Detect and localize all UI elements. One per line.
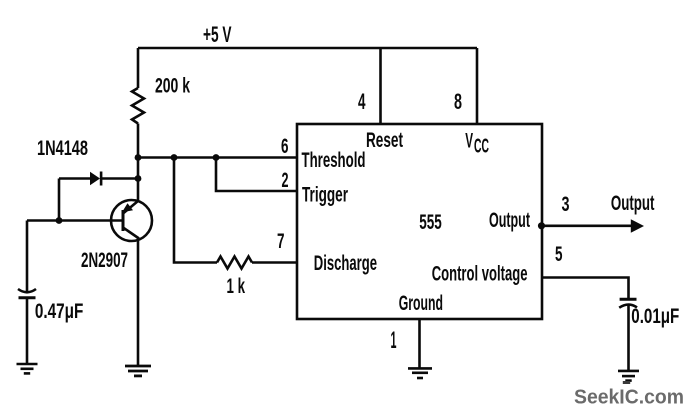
svg-text:1 k: 1 k [227,275,246,298]
svg-text:200 k: 200 k [155,75,190,98]
node dot threshold-resistor junction [135,154,142,161]
wire threshold row node to pin 6 [138,156,297,159]
wire base row to transistor Q1 base [27,219,123,222]
svg-text:0.01μF: 0.01μF [631,305,679,328]
svg-text:2N2907: 2N2907 [81,249,128,272]
resistor R1 200k [132,88,144,124]
output arrowhead [631,219,644,233]
capacitor C1 flat plate [19,296,36,299]
wire diode D1 cathode segment [102,177,138,180]
svg-text:Output: Output [611,192,655,215]
capacitor C2 curved plate [619,305,637,308]
wire cap C1 lead from base row corner [26,221,29,293]
node dot trigger branch junction [213,154,220,161]
wire +5V top rail [138,47,477,50]
transistor Q1 emitter diagonal [123,201,138,214]
ground right (C2) [618,371,639,381]
svg-text:Reset: Reset [366,129,403,152]
svg-text:+5 V: +5 V [203,22,232,47]
ground pin1 (555) [408,368,432,378]
wire trigger branch to pin 2 [216,158,297,192]
wire pin 1 ground lead [418,319,421,368]
svg-text:Threshold: Threshold [302,149,366,172]
wire transistor Q1 emitter to ground [137,239,140,367]
wire rail to resistor R1 top [137,48,140,88]
svg-text:6: 6 [281,135,289,158]
wire resistor R1 bottom to transistor Q1 collector [137,124,140,202]
svg-text:CC: CC [474,136,489,158]
svg-text:1N4148: 1N4148 [37,137,88,160]
node dot base-diode junction [56,217,63,224]
node dot output pin 3 [538,222,545,229]
diode D1 cathode bar [100,172,103,186]
transistor Q1 base bar [122,210,125,231]
svg-text:0.47μF: 0.47μF [35,300,84,323]
svg-text:Trigger: Trigger [302,184,348,207]
wire cap C1 to ground [26,298,29,364]
wire pin 5 control voltage [542,278,629,299]
wire cap C2 to ground [627,306,630,372]
svg-text:555: 555 [419,211,442,234]
svg-text:3: 3 [562,193,570,216]
wire discharge branch down [174,158,217,263]
watermark SeekIC.com [574,381,684,408]
transistor Q1 emitter arrow [122,203,133,212]
svg-text:5: 5 [555,243,563,266]
wire pin8 drop from rail [476,48,479,124]
IC U1 555 box [297,124,542,319]
wire resistor R2 to pin 7 [252,261,297,264]
wire diode D1 anode segment [59,177,90,180]
node dot discharge branch junction [171,154,178,161]
svg-text:8: 8 [454,89,462,114]
svg-text:2: 2 [282,169,289,192]
node dot diode-collector junction [135,175,142,182]
svg-text:Control voltage: Control voltage [432,263,528,286]
svg-text:1: 1 [391,327,397,354]
ground mid (Q1 emitter) [125,366,151,376]
wire pin4 drop from rail [379,48,382,124]
svg-text:SeekIC.com: SeekIC.com [574,385,684,408]
transistor Q1 circle [111,200,152,241]
wire pin 3 output [542,225,632,228]
diode D1 triangle [90,172,100,185]
svg-text:7: 7 [277,230,285,253]
svg-text:Discharge: Discharge [314,252,377,275]
resistor R2 1k [217,257,252,269]
transistor Q1 collector diagonal [123,228,139,239]
svg-text:V: V [465,130,473,153]
wire left branch diode to base row [58,179,61,221]
svg-text:Output: Output [489,209,530,232]
capacitor C2 flat plate [620,298,637,301]
ground left (C1) [17,364,38,373]
svg-text:Ground: Ground [399,292,443,315]
capacitor C1 curved plate [18,289,36,292]
svg-text:4: 4 [358,89,366,114]
